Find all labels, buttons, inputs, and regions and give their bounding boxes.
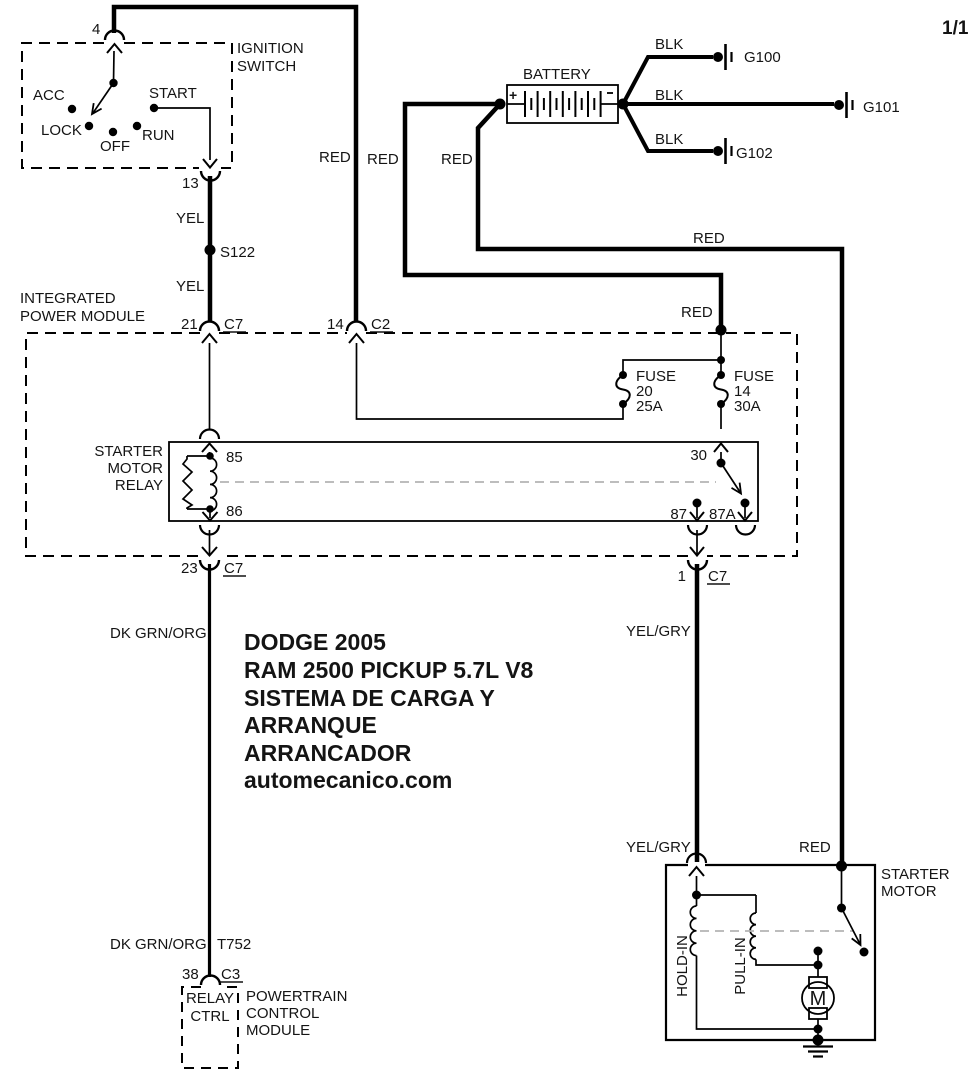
wire relay 87 to IPM pin 1 C7	[690, 530, 704, 556]
wire ignition pin 4 to IPM pin 14 C2 (heavy top wire)	[114, 7, 356, 322]
svg-text:RED: RED	[693, 230, 725, 247]
svg-text:RUN: RUN	[142, 127, 175, 144]
connector pin 1 C7 of IPM	[678, 560, 730, 585]
title block DODGE 2005	[244, 629, 534, 793]
svg-text:OFF: OFF	[100, 138, 130, 155]
svg-text:STARTER: STARTER	[881, 866, 950, 883]
node OFF	[100, 128, 130, 155]
label T752	[217, 936, 251, 953]
svg-text:85: 85	[226, 449, 243, 466]
node START	[149, 85, 197, 112]
wire battery positive to x405 vertical to fuse junction (RED)	[405, 104, 721, 327]
connector pin 38 C3 of PCM	[182, 966, 243, 985]
svg-text:G102: G102	[736, 145, 773, 162]
svg-text:25A: 25A	[636, 398, 663, 415]
svg-text:YEL/GRY: YEL/GRY	[626, 623, 691, 640]
label STARTER MOTOR RELAY	[94, 443, 163, 494]
ground G101	[834, 92, 900, 118]
label RED (x405 wire)	[441, 151, 473, 168]
svg-text:S122: S122	[220, 244, 255, 261]
relay contact 30 / 87A / 87	[670, 444, 752, 524]
svg-text:RED: RED	[799, 839, 831, 856]
wire battery positive diagonal to x478 to long RED run	[478, 104, 842, 864]
fuse F14 (FUSE 14 30A)	[714, 368, 774, 415]
svg-text:IGNITION: IGNITION	[237, 40, 304, 57]
wire fuse 14 bottom to relay pin 30 connector	[720, 404, 722, 429]
wire START to pin 13 (inside switch)	[154, 108, 217, 168]
svg-text:MODULE: MODULE	[246, 1022, 310, 1039]
svg-text:POWERTRAIN: POWERTRAIN	[246, 988, 347, 1005]
wire YEL pin 13 to splice S122 to pin 21 C7	[208, 176, 213, 322]
svg-text:LOCK: LOCK	[41, 122, 82, 139]
svg-text:START: START	[149, 85, 197, 102]
wire hold-in coil to motor ground bus	[697, 956, 819, 1029]
wire battery negative to ground G102 (BLK)	[623, 104, 713, 151]
node LOCK	[41, 122, 93, 139]
ignition switch dashed box	[22, 43, 232, 168]
svg-text:86: 86	[226, 503, 243, 520]
svg-text:T752: T752	[217, 936, 251, 953]
svg-text:4: 4	[92, 21, 100, 38]
wire pin 21 to relay coil connector	[209, 343, 211, 429]
label YEL/GRY (upper)	[626, 623, 691, 640]
wire fuse 20 top to junction	[623, 360, 721, 375]
svg-text:POWER MODULE: POWER MODULE	[20, 308, 145, 325]
ground (starter case)	[803, 1047, 833, 1057]
label POWERTRAIN CONTROL MODULE	[246, 988, 347, 1039]
ground G100	[713, 44, 781, 70]
svg-text:RELAY: RELAY	[186, 990, 234, 1007]
svg-text:C7: C7	[224, 560, 243, 577]
svg-text:1: 1	[678, 568, 686, 585]
svg-text:RED: RED	[681, 304, 713, 321]
ignition switch movable arm (pivot to LOCK, arrowhead)	[92, 79, 118, 114]
svg-text:PULL-IN: PULL-IN	[732, 937, 749, 995]
label YEL (lower)	[176, 278, 204, 295]
svg-text:RED: RED	[441, 151, 473, 168]
wire pull-in coil to motor top node	[756, 959, 818, 965]
svg-text:G100: G100	[744, 49, 781, 66]
connector pin 14 C2 of IPM	[327, 316, 393, 343]
svg-text:C2: C2	[371, 316, 390, 333]
wire solenoid feed to coils	[692, 876, 756, 900]
coil PULL-IN	[732, 895, 756, 995]
svg-text:RED: RED	[319, 149, 351, 166]
svg-text:INTEGRATED: INTEGRATED	[20, 290, 116, 307]
wire pin 14 C2 to fuse 20 bottom	[357, 343, 624, 419]
ignition switch wiper wire (pin 4 to pivot)	[113, 51, 116, 83]
svg-text:+: +	[509, 87, 517, 103]
connector relay coil terminal (box top)	[200, 430, 219, 453]
svg-text:YEL: YEL	[176, 210, 204, 227]
node battery negative terminal	[618, 99, 629, 110]
node ACC	[33, 87, 76, 113]
starter linkage (dashed)	[700, 930, 853, 932]
wire motor to ground	[813, 1019, 824, 1046]
svg-text:YEL/GRY: YEL/GRY	[626, 839, 691, 856]
wire DK GRN/ORG pin 23 to PCM pin 38 C3	[208, 564, 211, 977]
svg-text:YEL: YEL	[176, 278, 204, 295]
node motor feed	[814, 961, 823, 970]
wire YEL/GRY pin 1 C7 to starter motor	[695, 564, 700, 862]
connector below relay pin 87A	[736, 525, 755, 535]
motor M	[802, 977, 834, 1019]
svg-text:RAM 2500 PICKUP 5.7L V8: RAM 2500 PICKUP 5.7L V8	[244, 657, 534, 683]
starter solenoid switch	[837, 866, 869, 957]
svg-text:HOLD-IN: HOLD-IN	[674, 935, 691, 997]
node RUN	[133, 122, 175, 144]
svg-text:DK GRN/ORG: DK GRN/ORG	[110, 936, 207, 953]
svg-text:30A: 30A	[734, 398, 761, 415]
splice S122	[205, 244, 256, 261]
connector starter solenoid terminal (YEL/GRY)	[687, 854, 706, 876]
svg-text:87A: 87A	[709, 506, 736, 523]
svg-text:BATTERY: BATTERY	[523, 66, 591, 83]
ground G102	[713, 138, 773, 164]
connector pin 13 of ignition switch	[182, 171, 220, 192]
svg-text:87: 87	[670, 506, 687, 523]
label RED (above junction)	[681, 304, 713, 321]
svg-text:M: M	[810, 988, 827, 1010]
integrated power module dashed box	[26, 333, 797, 556]
svg-text:ACC: ACC	[33, 87, 65, 104]
page label 1/1	[942, 18, 969, 39]
battery B1	[507, 66, 618, 123]
svg-text:C7: C7	[708, 568, 727, 585]
label STARTER MOTOR	[881, 866, 950, 900]
connector pin 4 of ignition switch	[92, 21, 124, 53]
svg-text:30: 30	[690, 447, 707, 464]
svg-text:BLK: BLK	[655, 131, 683, 148]
label RED (long horizontal)	[693, 230, 725, 247]
label YEL (upper)	[176, 210, 204, 227]
node solenoid contact upper	[814, 947, 823, 956]
label YEL/GRY (lower)	[626, 839, 691, 856]
powertrain control module dashed box	[182, 987, 238, 1068]
svg-text:BLK: BLK	[655, 36, 683, 53]
svg-text:1/1: 1/1	[942, 18, 969, 39]
svg-text:23: 23	[181, 560, 198, 577]
wire relay 86 to IPM pin 23 C7	[200, 509, 219, 556]
wire contact node to motor	[817, 951, 819, 977]
relay coil (terminals 85/86)	[183, 449, 243, 520]
label RED (left of vertical x356)	[319, 149, 351, 166]
connector pin 21 C7 of IPM	[181, 316, 246, 343]
svg-text:ARRANCADOR: ARRANCADOR	[244, 740, 412, 766]
svg-text:CONTROL: CONTROL	[246, 1005, 319, 1022]
svg-text:13: 13	[182, 175, 199, 192]
svg-text:RED: RED	[367, 151, 399, 168]
node junction RED at IPM top edge	[716, 325, 727, 336]
label DK GRN/ORG (upper)	[110, 625, 207, 642]
node battery positive terminal	[495, 99, 506, 110]
label RED (right of vertical x356)	[367, 151, 399, 168]
wire junction to fuse 14	[717, 330, 725, 375]
svg-text:C3: C3	[221, 966, 240, 983]
svg-text:G101: G101	[863, 99, 900, 116]
svg-text:CTRL: CTRL	[190, 1008, 229, 1025]
svg-text:automecanico.com: automecanico.com	[244, 767, 452, 793]
wire battery negative to ground G100 (BLK)	[623, 36, 713, 104]
label IGNITION SWITCH	[237, 40, 304, 75]
svg-text:RELAY: RELAY	[115, 477, 163, 494]
svg-text:21: 21	[181, 316, 198, 333]
node RED feed at starter box top	[836, 861, 847, 872]
svg-text:C7: C7	[224, 316, 243, 333]
relay linkage (dashed)	[220, 481, 716, 483]
starter motor box	[666, 865, 875, 1040]
coil HOLD-IN	[674, 895, 697, 997]
svg-text:STARTER: STARTER	[94, 443, 163, 460]
label DK GRN/ORG (lower)	[110, 936, 207, 953]
starter motor relay box	[169, 442, 758, 521]
wire battery negative to ground G101 (BLK)	[623, 87, 834, 104]
svg-text:SISTEMA DE CARGA Y: SISTEMA DE CARGA Y	[244, 685, 495, 711]
connector pin 23 C7 of IPM	[181, 560, 246, 577]
svg-text:DODGE 2005: DODGE 2005	[244, 629, 386, 655]
svg-text:38: 38	[182, 966, 199, 983]
svg-text:14: 14	[327, 316, 344, 333]
fuse F20 (FUSE 20 25A)	[616, 368, 676, 415]
svg-text:ARRANQUE: ARRANQUE	[244, 712, 377, 738]
svg-text:BLK: BLK	[655, 87, 683, 104]
connector below relay pin 87	[688, 525, 707, 535]
svg-text:DK GRN/ORG: DK GRN/ORG	[110, 625, 207, 642]
label INTEGRATED POWER MODULE	[20, 290, 145, 325]
svg-text:SWITCH: SWITCH	[237, 58, 296, 75]
label RED (near starter)	[799, 839, 831, 856]
svg-text:MOTOR: MOTOR	[107, 460, 163, 477]
svg-text:MOTOR: MOTOR	[881, 883, 937, 900]
